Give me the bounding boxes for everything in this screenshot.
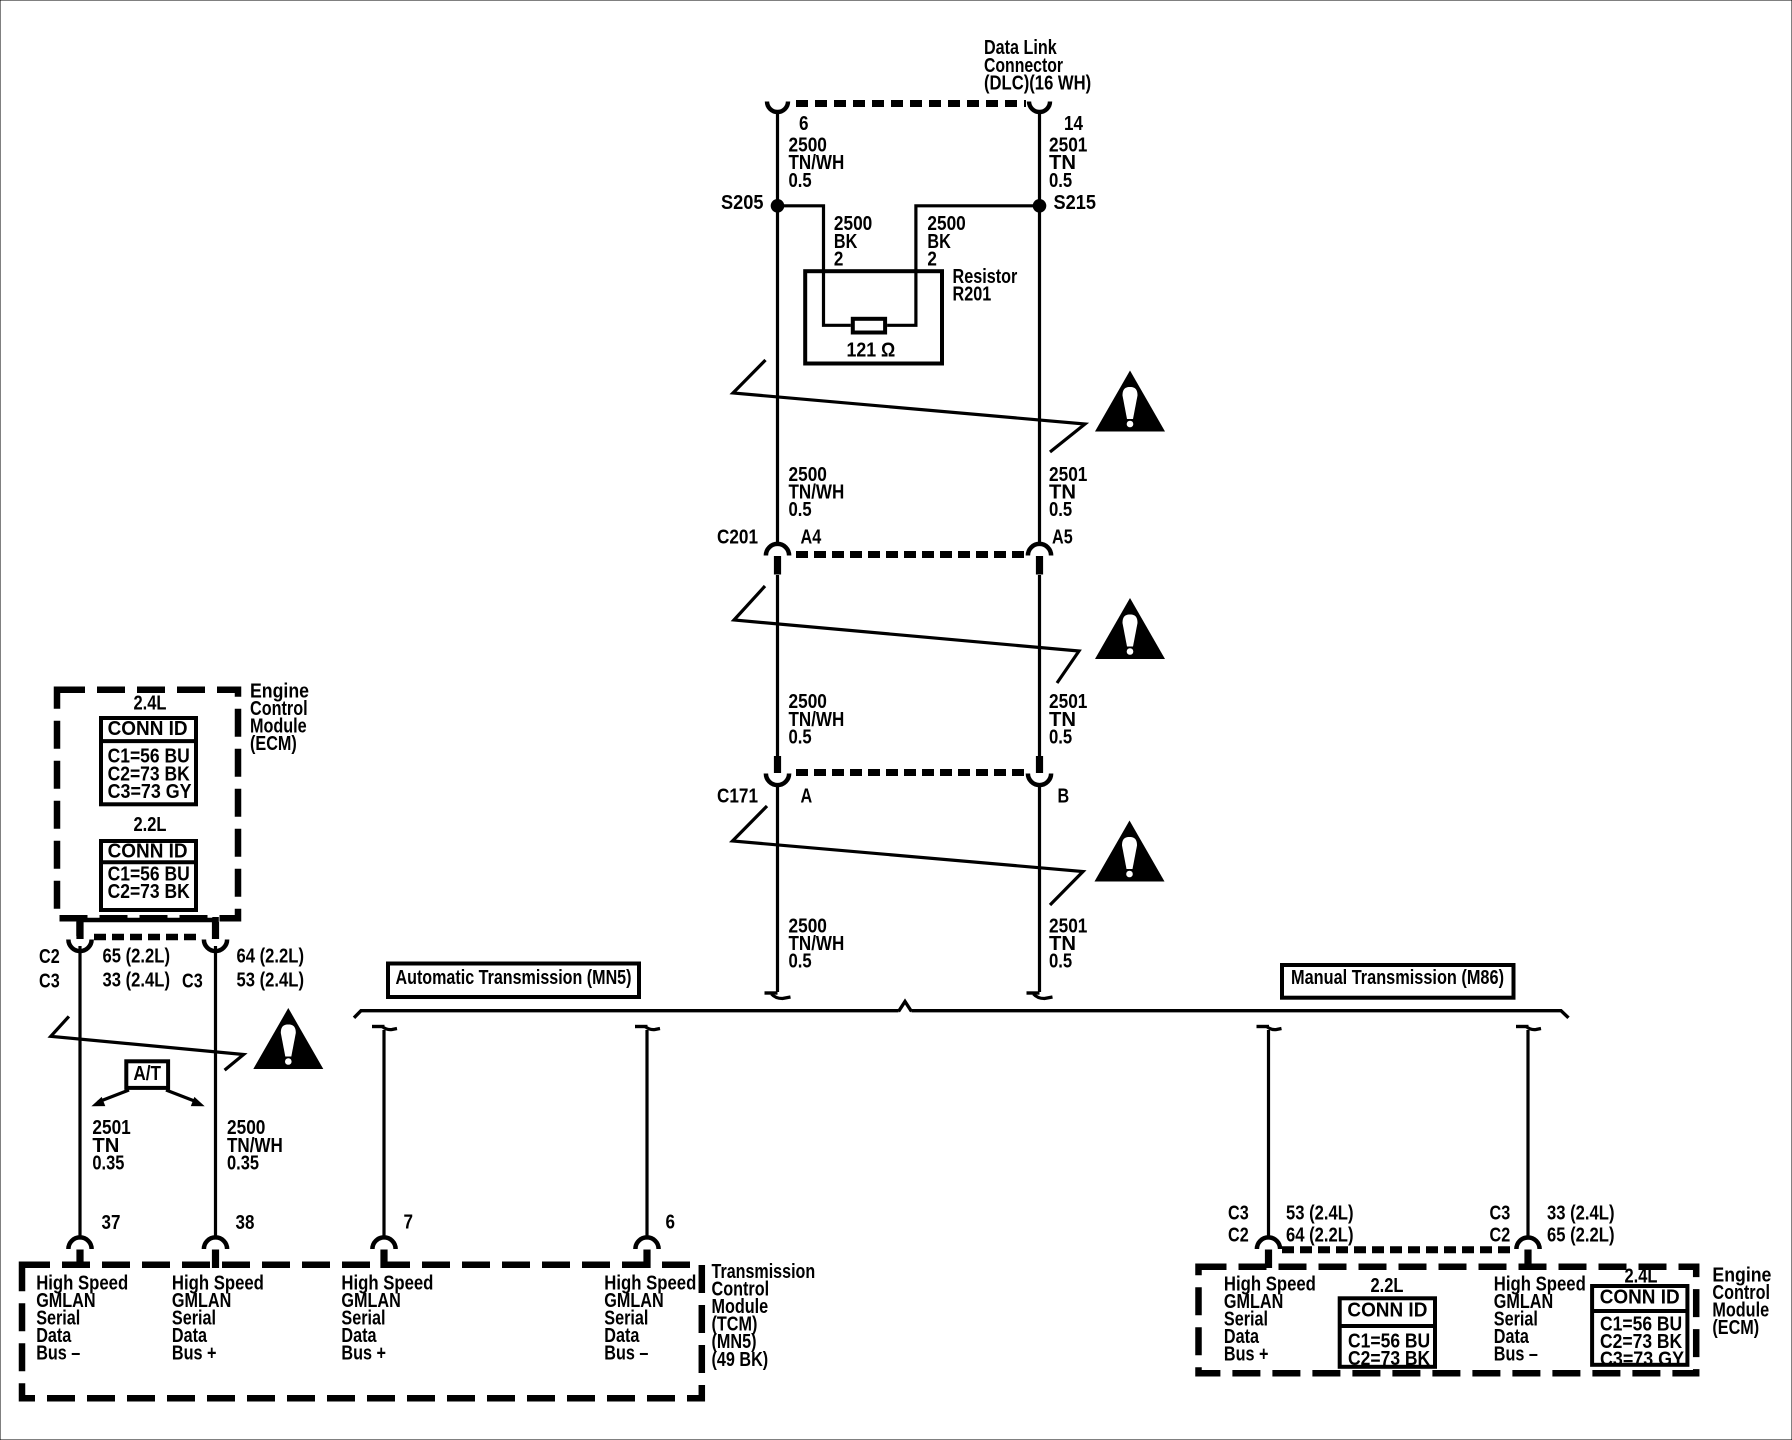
- svg-text:6: 6: [799, 113, 809, 135]
- svg-text:B: B: [1058, 785, 1070, 807]
- svg-text:Bus +: Bus +: [172, 1343, 217, 1365]
- svg-text:0.5: 0.5: [789, 726, 812, 748]
- svg-text:C2: C2: [1490, 1224, 1511, 1246]
- svg-text:C201: C201: [717, 526, 758, 548]
- svg-text:65 (2.2L): 65 (2.2L): [103, 945, 171, 967]
- svg-text:Manual Transmission (M86): Manual Transmission (M86): [1291, 967, 1504, 989]
- svg-text:0.35: 0.35: [92, 1152, 124, 1174]
- svg-text:64 (2.2L): 64 (2.2L): [237, 945, 305, 967]
- svg-text:0.5: 0.5: [789, 951, 812, 973]
- svg-text:2.4L: 2.4L: [134, 693, 167, 715]
- svg-text:Bus –: Bus –: [604, 1343, 648, 1365]
- svg-text:0.5: 0.5: [1049, 726, 1072, 748]
- svg-text:CONN ID: CONN ID: [108, 718, 188, 740]
- svg-text:2: 2: [927, 248, 937, 270]
- svg-text:(ECM): (ECM): [1712, 1317, 1759, 1339]
- svg-text:A4: A4: [801, 526, 822, 548]
- svg-text:C3: C3: [182, 970, 203, 992]
- svg-text:C2: C2: [1228, 1224, 1249, 1246]
- svg-text:2.4L: 2.4L: [1625, 1265, 1658, 1287]
- svg-text:A5: A5: [1052, 526, 1073, 548]
- svg-text:CONN ID: CONN ID: [1347, 1299, 1427, 1321]
- svg-text:A: A: [801, 785, 813, 807]
- svg-text:33 (2.4L): 33 (2.4L): [103, 969, 171, 991]
- svg-text:7: 7: [404, 1211, 414, 1233]
- svg-text:64 (2.2L): 64 (2.2L): [1286, 1224, 1354, 1246]
- svg-text:(ECM): (ECM): [250, 733, 297, 755]
- svg-text:C3: C3: [1228, 1202, 1249, 1224]
- svg-text:C3=73 GY: C3=73 GY: [108, 781, 193, 803]
- svg-text:S205: S205: [721, 192, 764, 214]
- svg-text:65 (2.2L): 65 (2.2L): [1547, 1224, 1615, 1246]
- svg-text:CONN ID: CONN ID: [108, 841, 188, 863]
- svg-text:2.2L: 2.2L: [134, 814, 167, 836]
- svg-text:2.2L: 2.2L: [1371, 1275, 1404, 1297]
- svg-text:0.5: 0.5: [1049, 499, 1072, 521]
- svg-text:Bus –: Bus –: [1494, 1344, 1538, 1366]
- svg-text:0.5: 0.5: [1049, 951, 1072, 973]
- svg-text:Bus +: Bus +: [341, 1343, 386, 1365]
- svg-text:0.35: 0.35: [227, 1152, 259, 1174]
- svg-text:14: 14: [1064, 113, 1084, 135]
- svg-text:0.5: 0.5: [789, 170, 812, 192]
- svg-text:0.5: 0.5: [789, 499, 812, 521]
- svg-text:2: 2: [834, 248, 844, 270]
- svg-text:C3: C3: [1490, 1202, 1511, 1224]
- svg-text:R201: R201: [953, 284, 992, 306]
- svg-text:0.5: 0.5: [1049, 170, 1072, 192]
- svg-text:37: 37: [102, 1212, 121, 1234]
- svg-text:C3: C3: [39, 970, 60, 992]
- svg-text:(DLC)(16 WH): (DLC)(16 WH): [984, 72, 1091, 94]
- svg-text:C2=73 BK: C2=73 BK: [108, 881, 191, 903]
- svg-text:38: 38: [236, 1212, 255, 1234]
- svg-text:A/T: A/T: [133, 1063, 161, 1085]
- svg-text:C171: C171: [717, 785, 758, 807]
- svg-text:(49 BK): (49 BK): [712, 1349, 769, 1371]
- svg-text:33 (2.4L): 33 (2.4L): [1547, 1202, 1615, 1224]
- svg-text:53 (2.4L): 53 (2.4L): [237, 969, 305, 991]
- svg-text:Bus –: Bus –: [36, 1343, 80, 1365]
- svg-text:121 Ω: 121 Ω: [847, 339, 896, 361]
- svg-text:Automatic Transmission (MN5): Automatic Transmission (MN5): [396, 967, 632, 989]
- svg-text:C3=73 GY: C3=73 GY: [1600, 1349, 1685, 1371]
- svg-text:Bus +: Bus +: [1224, 1344, 1269, 1366]
- svg-text:C2: C2: [39, 946, 60, 968]
- svg-text:53 (2.4L): 53 (2.4L): [1286, 1202, 1354, 1224]
- svg-text:6: 6: [666, 1211, 676, 1233]
- svg-text:S215: S215: [1054, 192, 1097, 214]
- svg-text:C2=73 BK: C2=73 BK: [1348, 1348, 1431, 1370]
- svg-text:CONN ID: CONN ID: [1600, 1286, 1680, 1308]
